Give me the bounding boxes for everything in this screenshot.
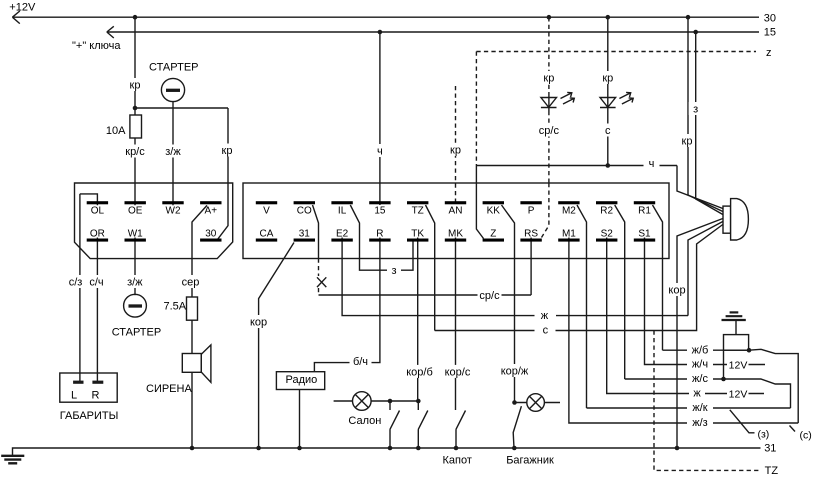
svg-text:СТАРТЕР: СТАРТЕР xyxy=(112,326,162,338)
svg-text:з/ж: з/ж xyxy=(127,277,143,289)
svg-text:ж: ж xyxy=(541,310,549,322)
svg-text:СТАРТЕР: СТАРТЕР xyxy=(149,62,199,74)
svg-text:30: 30 xyxy=(205,228,217,239)
svg-text:ч: ч xyxy=(377,146,383,158)
svg-text:TZ: TZ xyxy=(412,206,424,217)
svg-text:ж: ж xyxy=(693,388,701,400)
svg-text:E2: E2 xyxy=(336,228,349,239)
svg-text:W2: W2 xyxy=(166,206,181,217)
svg-text:Капот: Капот xyxy=(443,454,472,466)
svg-text:KK: KK xyxy=(487,206,501,217)
svg-text:з: з xyxy=(391,265,396,277)
svg-text:ср/с: ср/с xyxy=(479,290,500,302)
svg-text:ж/з: ж/з xyxy=(692,417,707,429)
svg-text:31: 31 xyxy=(299,228,311,239)
svg-text:ж/к: ж/к xyxy=(692,402,707,414)
svg-text:OL: OL xyxy=(91,206,105,217)
svg-text:IL: IL xyxy=(338,206,347,217)
svg-text:б/ч: б/ч xyxy=(353,356,368,368)
svg-text:OR: OR xyxy=(90,228,105,239)
svg-text:кр: кр xyxy=(130,79,141,91)
svg-text:кр: кр xyxy=(450,145,461,157)
svg-text:M1: M1 xyxy=(562,228,576,239)
svg-text:кр: кр xyxy=(543,73,554,85)
svg-text:кор/ж: кор/ж xyxy=(501,366,529,378)
svg-text:кр: кр xyxy=(682,136,693,148)
svg-text:(з): (з) xyxy=(758,429,770,441)
svg-text:Радио: Радио xyxy=(286,374,318,386)
svg-text:с: с xyxy=(543,325,549,337)
svg-text:L: L xyxy=(71,390,77,402)
svg-text:кр: кр xyxy=(602,73,613,85)
svg-text:12V: 12V xyxy=(729,359,748,371)
svg-text:кр/с: кр/с xyxy=(125,146,145,158)
svg-text:W1: W1 xyxy=(128,228,143,239)
svg-text:сер: сер xyxy=(182,277,200,289)
svg-text:Багажник: Багажник xyxy=(506,454,554,466)
svg-text:TK: TK xyxy=(411,228,424,239)
svg-text:ж/б: ж/б xyxy=(692,344,709,356)
svg-text:OE: OE xyxy=(128,206,143,217)
svg-text:15: 15 xyxy=(374,206,386,217)
svg-text:кор: кор xyxy=(250,317,267,329)
svg-text:CA: CA xyxy=(260,228,274,239)
svg-text:кор/с: кор/с xyxy=(445,366,471,378)
svg-text:кр: кр xyxy=(222,145,233,157)
svg-text:ж/ч: ж/ч xyxy=(692,359,708,371)
svg-text:z: z xyxy=(766,47,772,59)
svg-text:ГАБАРИТЫ: ГАБАРИТЫ xyxy=(60,410,119,422)
svg-text:ж/с: ж/с xyxy=(692,373,708,385)
svg-text:с/з: с/з xyxy=(69,277,83,289)
svg-text:V: V xyxy=(263,206,270,217)
svg-text:RS: RS xyxy=(524,228,538,239)
svg-text:P: P xyxy=(528,206,535,217)
svg-text:7.5A: 7.5A xyxy=(164,301,187,313)
svg-text:MK: MK xyxy=(448,228,463,239)
svg-text:ч: ч xyxy=(649,158,655,170)
svg-text:с/ч: с/ч xyxy=(89,277,103,289)
svg-text:M2: M2 xyxy=(562,206,576,217)
svg-text:30: 30 xyxy=(764,12,776,24)
svg-text:15: 15 xyxy=(764,27,776,39)
svg-text:R2: R2 xyxy=(600,206,613,217)
svg-text:R1: R1 xyxy=(638,206,651,217)
svg-text:R: R xyxy=(376,228,383,239)
svg-text:кор: кор xyxy=(668,285,685,297)
svg-text:+12V: +12V xyxy=(9,1,36,13)
svg-text:Z: Z xyxy=(490,228,496,239)
svg-text:AN: AN xyxy=(449,206,463,217)
svg-text:з/ж: з/ж xyxy=(165,146,181,158)
svg-text:ср/с: ср/с xyxy=(539,125,560,137)
svg-text:Салон: Салон xyxy=(348,415,381,427)
svg-text:"+" ключа: "+" ключа xyxy=(72,40,121,52)
svg-text:R: R xyxy=(92,390,100,402)
svg-text:CO: CO xyxy=(297,206,312,217)
svg-text:TZ: TZ xyxy=(765,465,779,477)
svg-text:з: з xyxy=(693,104,698,116)
svg-text:СИРЕНА: СИРЕНА xyxy=(146,383,192,395)
svg-text:S2: S2 xyxy=(601,228,614,239)
svg-text:с: с xyxy=(605,125,611,137)
svg-text:S1: S1 xyxy=(638,228,651,239)
svg-text:A+: A+ xyxy=(205,206,218,217)
svg-text:10A: 10A xyxy=(106,125,126,137)
svg-text:кор/б: кор/б xyxy=(406,366,433,378)
svg-text:31: 31 xyxy=(764,442,776,454)
svg-text:12V: 12V xyxy=(729,388,748,400)
svg-text:(с): (с) xyxy=(800,430,812,442)
